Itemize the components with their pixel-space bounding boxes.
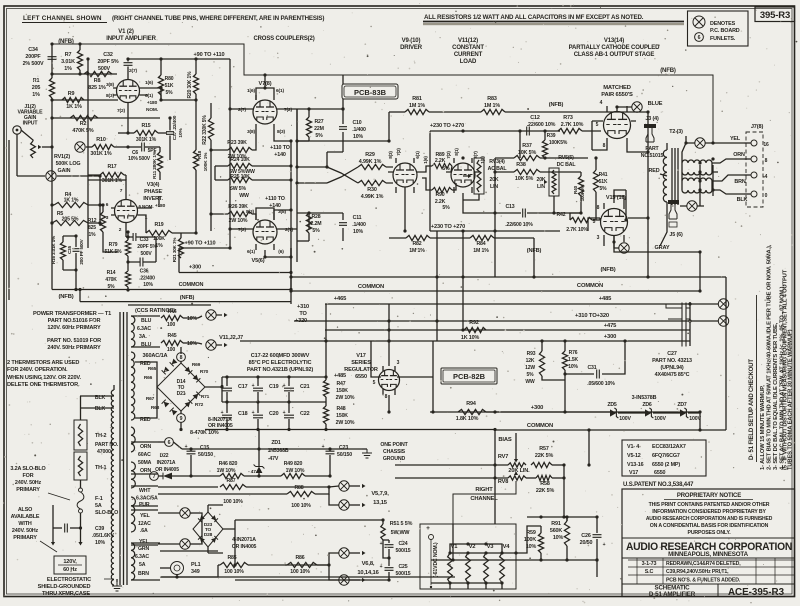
svg-text:R18: R18	[197, 150, 203, 159]
resistor R20	[187, 57, 199, 133]
svg-text:+: +	[426, 525, 430, 532]
svg-text:5W,WW: 5W,WW	[391, 530, 411, 536]
svg-text:500/15: 500/15	[396, 571, 411, 577]
svg-text:R8: R8	[94, 78, 101, 84]
svg-text:301K 1%: 301K 1%	[102, 178, 123, 184]
resistor R76	[562, 341, 578, 412]
T2 sec verticals	[682, 163, 712, 190]
svg-text:R38: R38	[516, 162, 526, 168]
resistor R91	[550, 517, 570, 562]
svg-text:R15: R15	[141, 123, 150, 129]
wire +90 bus top	[0, 0, 1, 1]
bus +300 341	[240, 334, 690, 343]
svg-text:+485: +485	[334, 373, 346, 379]
label slo-blo	[10, 466, 70, 500]
pins V17	[373, 360, 400, 400]
svg-text:10%: 10%	[187, 316, 197, 322]
svg-text:2.7K 10%: 2.7K 10%	[566, 227, 588, 233]
svg-text:6550: 6550	[654, 470, 666, 476]
svg-text:R59: R59	[526, 530, 536, 536]
terminal 0	[744, 191, 768, 199]
label blk	[737, 197, 748, 203]
svg-text:+180: +180	[155, 203, 166, 209]
svg-text:+300: +300	[189, 265, 201, 271]
svg-text:2% 500V: 2% 500V	[23, 61, 44, 67]
resistor R80	[158, 57, 173, 100]
T1 sec GRN	[131, 543, 135, 580]
tube V3	[111, 194, 141, 232]
zener ZD6	[632, 395, 667, 422]
svg-text:TH-2: TH-2	[95, 433, 107, 439]
bus NFB 277	[291, 267, 726, 296]
svg-text:RV7: RV7	[498, 454, 508, 460]
resistor R38	[495, 162, 581, 182]
pins V11	[446, 148, 485, 164]
svg-text:R69: R69	[192, 362, 201, 368]
svg-text:50/150: 50/150	[198, 452, 213, 458]
svg-text:V13(14): V13(14)	[604, 38, 624, 44]
resistor R93	[525, 341, 565, 385]
label field setup	[749, 295, 757, 462]
bridge D23-D28 frame	[193, 512, 223, 547]
resistor R37	[495, 143, 588, 161]
svg-text:5%: 5%	[442, 166, 450, 172]
svg-text:C34: C34	[28, 47, 38, 53]
winding GRN box	[131, 543, 160, 580]
label -61vdc	[433, 542, 439, 577]
svg-text:DRIVER: DRIVER	[400, 45, 423, 51]
transformer T2	[669, 129, 683, 135]
label +110 region	[265, 145, 290, 209]
wire nfb row 301	[78, 248, 291, 304]
svg-text:100V: 100V	[654, 416, 666, 422]
svg-text:YEL: YEL	[139, 539, 150, 545]
wire v7 top	[230, 73, 297, 109]
svg-text:(NFB): (NFB)	[660, 68, 676, 74]
svg-text:ZD6: ZD6	[642, 402, 652, 408]
svg-text:.22/600 10%: .22/600 10%	[505, 222, 533, 228]
svg-text:+: +	[252, 383, 255, 389]
label red t2	[649, 168, 667, 176]
svg-text:.1/400: .1/400	[352, 222, 366, 228]
svg-text:THIS PRINT CONTAINS PATENTED A: THIS PRINT CONTAINS PATENTED AND/OR OTHE…	[649, 502, 770, 508]
svg-text:TO: TO	[299, 311, 307, 317]
svg-text:C27: C27	[667, 351, 677, 357]
svg-text:+310 TO+320: +310 TO+320	[575, 313, 609, 319]
bridge2 diodes	[198, 515, 218, 543]
svg-text:RV1(2): RV1(2)	[54, 154, 70, 160]
T2 secondary winding 3	[682, 178, 712, 181]
svg-text:500K LOG: 500K LOG	[56, 161, 81, 167]
svg-text:6.3AC: 6.3AC	[137, 326, 151, 332]
capacitor C17	[221, 377, 248, 402]
funlet blue	[615, 101, 662, 112]
svg-text:WHT: WHT	[139, 488, 151, 494]
svg-text:R71: R71	[201, 394, 210, 400]
box 120V	[54, 556, 86, 574]
bus bias bottom	[431, 558, 599, 577]
svg-text:D- 51 FIELD SETUP AND CHECKOU: D- 51 FIELD SETUP AND CHECKOUT	[749, 359, 755, 460]
svg-text:C19: C19	[269, 384, 279, 390]
svg-text:1(6): 1(6)	[145, 80, 153, 86]
wire v15 wiring	[588, 190, 700, 246]
svg-text:100 10%: 100 10%	[291, 503, 311, 509]
svg-text:6(1): 6(1)	[247, 249, 255, 255]
svg-text:301K 1%: 301K 1%	[90, 151, 111, 157]
svg-text:WW: WW	[239, 193, 249, 199]
svg-text:POWER TRANSFORMER — T1: POWER TRANSFORMER — T1	[33, 311, 111, 317]
resistor R1	[32, 78, 55, 98]
label V3	[143, 182, 165, 209]
pins V15	[593, 205, 600, 241]
svg-text:REDRAWN,C14&R74 DELETED,: REDRAWN,C14&R74 DELETED,	[666, 561, 741, 567]
tube V1	[113, 74, 143, 112]
svg-text:8: 8	[180, 355, 183, 361]
tube V11	[446, 158, 480, 193]
svg-text:ECC83/12AX7: ECC83/12AX7	[652, 444, 686, 450]
tube V9	[388, 158, 422, 233]
label D23 TO D28	[204, 522, 213, 538]
svg-text:R72: R72	[195, 402, 204, 408]
bus +465 304	[325, 296, 729, 309]
svg-text:R42: R42	[556, 212, 565, 218]
svg-text:5%: 5%	[315, 133, 323, 139]
capacitor C36	[128, 258, 156, 289]
wire bias verticals	[450, 542, 502, 589]
resistor R7	[61, 42, 82, 74]
svg-text:2.2M: 2.2M	[311, 221, 322, 227]
resistor bias V3	[484, 544, 495, 585]
label V9 driver	[400, 38, 423, 51]
svg-text:PART NO. 43213: PART NO. 43213	[652, 358, 692, 364]
svg-text:ACE-395-R3: ACE-395-R3	[728, 587, 785, 598]
svg-text:PART NO.4321B (UPNL92): PART NO.4321B (UPNL92)	[247, 367, 314, 373]
svg-text:500/15: 500/15	[396, 548, 411, 554]
svg-text:F-1: F-1	[95, 496, 103, 502]
svg-text:4-IN2071A: 4-IN2071A	[232, 537, 256, 543]
svg-text:16: 16	[763, 142, 769, 148]
bus COMMON 291	[289, 283, 701, 293]
wire bridge	[135, 347, 224, 429]
wire row262	[179, 265, 293, 275]
resistor R29	[327, 152, 393, 183]
resistor R10	[75, 137, 128, 157]
svg-text:DC BAL: DC BAL	[557, 162, 577, 168]
wire v1 plate	[126, 86, 197, 134]
capacitor C13	[495, 204, 583, 228]
svg-text:LIN: LIN	[490, 184, 498, 190]
svg-text:- 47: - 47	[248, 469, 256, 475]
svg-text:12W: 12W	[525, 365, 535, 371]
svg-text:4: 4	[765, 174, 768, 180]
T2 primary coil	[663, 143, 667, 213]
bus capbank top	[222, 375, 328, 378]
capacitor C10	[339, 109, 366, 141]
svg-text:(6): (6)	[278, 249, 284, 255]
svg-text:ALL RESISTORS 1/2 WATT AND ALL: ALL RESISTORS 1/2 WATT AND ALL CAPACITOR…	[424, 14, 644, 21]
svg-text:(NFB): (NFB)	[600, 267, 615, 273]
svg-text:P.C. BOARD: P.C. BOARD	[710, 28, 740, 34]
svg-text:5: 5	[593, 219, 596, 225]
bus +300 412	[430, 405, 702, 414]
wire stack columns	[289, 231, 495, 341]
wire r51 col	[160, 540, 455, 582]
svg-text:10%: 10%	[353, 134, 363, 140]
bus +475 330	[325, 323, 690, 332]
svg-text:U.S.PATENT NO.3,538,447: U.S.PATENT NO.3,538,447	[623, 482, 694, 488]
wire row141	[297, 112, 391, 143]
diode D22	[150, 453, 180, 480]
label 360AC	[140, 353, 168, 423]
capacitor C26	[580, 517, 606, 562]
wire row131	[430, 123, 560, 160]
bias input circle	[429, 535, 434, 589]
label V17	[344, 353, 378, 380]
svg-text:NO.51015: NO.51015	[641, 153, 664, 159]
svg-text:V5,7,9,: V5,7,9,	[371, 491, 389, 497]
wire r27 row	[297, 107, 345, 141]
drawing number ACE-395-R3	[728, 587, 785, 598]
svg-text:2 THERMISTORS ARE USED: 2 THERMISTORS ARE USED	[7, 360, 79, 366]
zener ZD5	[607, 402, 631, 422]
svg-text:BRN: BRN	[734, 179, 745, 185]
wire mid columns	[295, 75, 344, 262]
svg-text:2(7): 2(7)	[129, 68, 137, 74]
svg-text:C21: C21	[300, 384, 310, 390]
bus capbank mid	[222, 400, 326, 403]
svg-text:3A.: 3A.	[139, 334, 147, 340]
svg-text:13,15: 13,15	[373, 500, 388, 506]
svg-text:500V: 500V	[140, 251, 152, 257]
resistor R4	[50, 192, 101, 208]
capacitor C39	[53, 524, 114, 547]
potentiometer RV3	[463, 158, 507, 200]
svg-text:PCB-83B: PCB-83B	[354, 88, 387, 97]
resistor bias V4	[500, 544, 511, 585]
svg-text:YEL: YEL	[730, 136, 741, 142]
svg-text:(RIGHT CHANNEL TUBE PINS, WHER: (RIGHT CHANNEL TUBE PINS, WHERE DIFFEREN…	[112, 15, 324, 22]
svg-text:301K 1%: 301K 1%	[136, 137, 157, 143]
wire r28 row	[297, 211, 343, 241]
svg-text:FOR: FOR	[23, 473, 34, 479]
svg-text:REGULATOR: REGULATOR	[344, 367, 378, 373]
svg-text:1K 1%: 1K 1%	[64, 198, 79, 204]
svg-text:(NFB): (NFB)	[549, 102, 564, 108]
svg-text:R41: R41	[599, 172, 608, 178]
svg-text:3-1-73: 3-1-73	[642, 561, 657, 567]
resistor R47	[323, 341, 354, 401]
label V5	[252, 258, 265, 264]
svg-text:22K 5%: 22K 5%	[536, 488, 555, 494]
svg-text:R88: R88	[294, 485, 303, 491]
pins V1	[106, 68, 158, 114]
svg-text:R90: R90	[435, 192, 444, 198]
svg-text:R7: R7	[65, 52, 72, 58]
resistor R12	[88, 203, 106, 247]
T1 sec RED	[131, 352, 135, 420]
callout PCB-83B	[342, 84, 398, 99]
svg-text:4.99K 1%: 4.99K 1%	[359, 159, 382, 165]
svg-text:+110 TO: +110 TO	[270, 145, 290, 151]
winding BLU box	[131, 316, 160, 348]
svg-text:R84: R84	[476, 241, 485, 247]
svg-text:1%: 1%	[64, 66, 72, 72]
svg-text:WITH: WITH	[18, 521, 31, 527]
resistor bias V1	[448, 544, 459, 585]
label part no	[641, 146, 664, 159]
svg-text:120V. 60Hz PRIMARY: 120V. 60Hz PRIMARY	[47, 325, 101, 331]
svg-text:3(8): 3(8)	[106, 82, 114, 88]
resistor R48	[323, 397, 354, 430]
label V13 output stage	[569, 38, 661, 58]
svg-text:C26: C26	[581, 533, 591, 539]
svg-text:PRIMARY: PRIMARY	[13, 535, 37, 541]
svg-text:C32: C32	[103, 52, 113, 58]
svg-text:6(1): 6(1)	[415, 151, 420, 159]
svg-text:R92: R92	[469, 320, 479, 326]
svg-text:5: 5	[373, 380, 376, 386]
svg-text:V2: V2	[469, 544, 476, 550]
wire zener row	[486, 412, 700, 430]
svg-text:1.8K 10%: 1.8K 10%	[456, 416, 479, 422]
svg-text:COMMON: COMMON	[179, 282, 204, 288]
svg-text:395-R3: 395-R3	[760, 10, 790, 21]
svg-text:PART NO.51016 FOR: PART NO.51016 FOR	[48, 318, 101, 324]
label +485	[334, 373, 346, 379]
label V7	[259, 81, 272, 87]
svg-text:2- SET BIAS TO MIN.THD AT 50W.: 2- SET BIAS TO MIN.THD AT 50W.AT 1KHz(40…	[767, 244, 773, 470]
svg-text:S.C: S.C	[645, 569, 654, 575]
svg-text:DELETE ONE THERMISTOR.: DELETE ONE THERMISTOR.	[7, 382, 80, 388]
resistor R85	[220, 555, 331, 575]
svg-text:V5-12: V5-12	[627, 453, 641, 459]
svg-text:R2: R2	[80, 121, 87, 127]
svg-text:10%: 10%	[187, 341, 197, 347]
svg-text:BLUE: BLUE	[648, 101, 663, 107]
label 20K LIN	[508, 468, 530, 474]
pins V7	[238, 88, 292, 135]
resistor R87	[220, 478, 331, 505]
bus +310 321	[294, 313, 729, 326]
resistor R84	[430, 235, 534, 254]
svg-text:CURRENT: CURRENT	[454, 52, 483, 58]
label F-1	[95, 496, 118, 516]
svg-text:100K: 100K	[524, 537, 537, 543]
pins V3	[106, 188, 154, 233]
svg-text:R86: R86	[295, 555, 304, 561]
svg-text:1(6): 1(6)	[247, 88, 255, 94]
svg-text:+: +	[380, 541, 383, 547]
capacitor C24	[380, 540, 411, 558]
svg-text:+: +	[221, 383, 224, 389]
label NFB top right	[660, 68, 676, 74]
svg-text:CHANNEL: CHANNEL	[470, 496, 498, 502]
svg-text:INFORMATION CONSIDERED PROPRIE: INFORMATION CONSIDERED PROPRIETARY BY	[652, 509, 766, 515]
company name	[622, 538, 795, 558]
label electrostatic	[38, 577, 114, 597]
svg-text:C36: C36	[140, 269, 149, 275]
label bias plus	[426, 525, 430, 532]
svg-text:MATCHED: MATCHED	[603, 85, 631, 91]
svg-text:8(3): 8(3)	[106, 93, 114, 99]
zener ZD7	[677, 402, 701, 422]
wire orn bottom	[189, 474, 192, 477]
svg-text:R9: R9	[68, 91, 75, 97]
resistor R5	[50, 211, 101, 226]
svg-text:C15: C15	[200, 445, 209, 451]
svg-text:8: 8	[603, 143, 606, 149]
label yel	[730, 136, 741, 142]
wire input col	[9, 44, 88, 300]
svg-text:12K: 12K	[526, 358, 535, 364]
svg-text:8(3): 8(3)	[388, 151, 393, 159]
svg-text:1%: 1%	[89, 232, 97, 238]
svg-text:PRIMARY: PRIMARY	[16, 487, 40, 493]
label bridge diodes	[190, 417, 233, 436]
label thermistor note	[7, 360, 81, 388]
svg-text:10% 500V: 10% 500V	[128, 156, 151, 162]
connector J1	[13, 104, 45, 176]
svg-text:1%: 1%	[32, 92, 40, 98]
resistor R49	[244, 461, 330, 479]
svg-text:THRU XFMR,CASE: THRU XFMR,CASE	[42, 591, 90, 597]
capacitor C15	[182, 444, 362, 476]
resistor R58	[526, 465, 566, 517]
note left channel	[22, 15, 324, 23]
svg-text:+180: +180	[147, 100, 158, 106]
funlet blu2	[198, 340, 228, 350]
svg-text:6.3AC/5A: 6.3AC/5A	[136, 496, 158, 502]
svg-text:825 1%: 825 1%	[88, 85, 106, 91]
resistor R28	[306, 213, 321, 241]
svg-text:85°C PC ELECTROLYTIC: 85°C PC ELECTROLYTIC	[249, 360, 312, 366]
svg-text:C11: C11	[353, 215, 362, 221]
funlet yel2	[158, 539, 200, 549]
svg-text:C31: C31	[587, 365, 596, 371]
svg-text:+230 TO +270: +230 TO +270	[430, 123, 464, 129]
svg-text:PARTIALLY CATHODE COUPLED: PARTIALLY CATHODE COUPLED	[569, 45, 661, 51]
potentiometer RV7	[498, 454, 526, 467]
wire sec taps	[682, 136, 744, 196]
svg-text:R30: R30	[367, 187, 377, 193]
svg-text:R65: R65	[148, 366, 157, 372]
svg-text:ON A CONFIDENTIAL BASIS FOR ID: ON A CONFIDENTIAL BASIS FOR IDENTIFICATI…	[650, 523, 769, 529]
tube V13	[598, 106, 636, 145]
svg-text:(NFB): (NFB)	[58, 294, 73, 300]
svg-text:22M: 22M	[314, 126, 324, 132]
svg-text:V9 (10): V9 (10)	[402, 38, 421, 44]
svg-text:3: 3	[397, 360, 400, 366]
label +310 left	[295, 304, 309, 324]
svg-text:V4: V4	[503, 544, 511, 550]
svg-text:3: 3	[597, 235, 600, 241]
funlet yel1	[158, 508, 200, 518]
label nfb left low	[58, 294, 73, 300]
wire bias net	[453, 515, 599, 560]
resistor R41	[593, 156, 607, 220]
funlet nfb out	[684, 138, 744, 148]
svg-text:C20: C20	[269, 411, 279, 417]
label BLK1	[80, 395, 114, 401]
svg-text:.1/400: .1/400	[352, 127, 366, 133]
tube V7	[248, 95, 282, 130]
svg-text:6550: 6550	[355, 374, 367, 380]
T2 secondary winding 4	[682, 190, 712, 193]
svg-text:8(1): 8(1)	[454, 148, 459, 156]
svg-text:C23: C23	[339, 445, 348, 451]
resistor R89	[422, 152, 452, 172]
svg-text:R10: R10	[96, 137, 106, 143]
